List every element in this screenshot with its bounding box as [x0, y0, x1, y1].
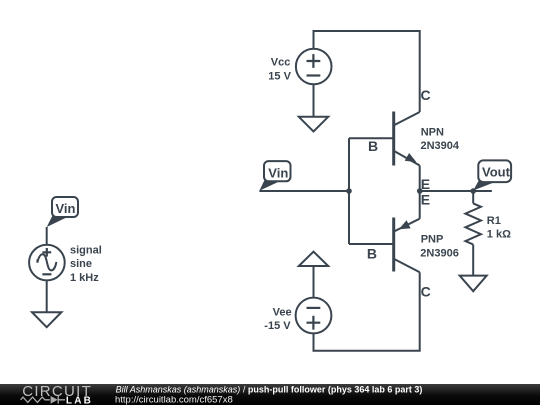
svg-text:Vin: Vin: [56, 201, 76, 216]
svg-text:Vee: Vee: [273, 306, 292, 318]
svg-text:-15 V: -15 V: [264, 320, 291, 332]
svg-text:Vout: Vout: [482, 165, 511, 180]
svg-text:C: C: [421, 284, 431, 300]
svg-text:2N3904: 2N3904: [421, 140, 460, 152]
svg-text:E: E: [421, 192, 430, 208]
svg-text:1 kHz: 1 kHz: [70, 272, 99, 284]
svg-text:2N3906: 2N3906: [420, 247, 459, 259]
svg-text:Vcc: Vcc: [271, 57, 291, 69]
svg-text:C: C: [421, 87, 431, 103]
svg-text:15 V: 15 V: [268, 70, 291, 82]
svg-text:Vin: Vin: [268, 165, 288, 180]
svg-text:Bill Ashmanskas (ashmanskas) /: Bill Ashmanskas (ashmanskas) / push-pull…: [116, 385, 423, 395]
svg-text:http://circuitlab.com/cf657x8: http://circuitlab.com/cf657x8: [115, 394, 233, 405]
svg-text:PNP: PNP: [421, 233, 444, 245]
svg-text:LAB: LAB: [66, 395, 93, 405]
svg-text:E: E: [421, 176, 430, 192]
svg-text:1 kΩ: 1 kΩ: [487, 228, 511, 240]
svg-text:NPN: NPN: [421, 127, 444, 139]
svg-text:R1: R1: [487, 215, 501, 227]
svg-text:signal: signal: [70, 244, 102, 256]
svg-text:B: B: [367, 246, 377, 262]
svg-text:B: B: [368, 138, 378, 154]
svg-text:sine: sine: [70, 258, 92, 270]
